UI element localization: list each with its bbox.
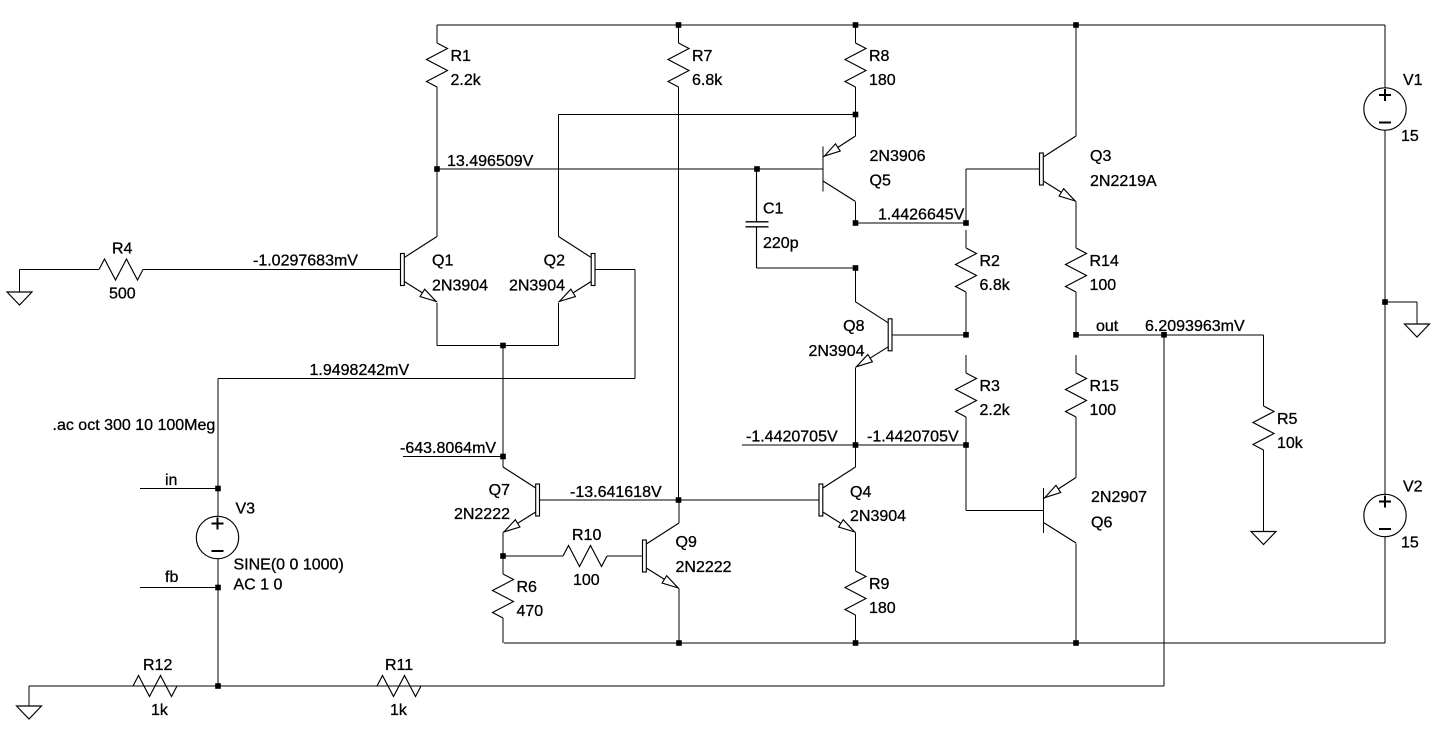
svg-text:180: 180: [869, 72, 896, 89]
transistor Q8 2N3904: [856, 302, 893, 368]
wire in stub: [140, 488, 218, 490]
svg-text:C1: C1: [763, 201, 784, 218]
svg-text:.ac oct 300 10 100Meg: .ac oct 300 10 100Meg: [53, 417, 216, 434]
svg-text:1.4426645V: 1.4426645V: [878, 207, 965, 224]
wire -1.442V link: [856, 444, 967, 446]
junction: [853, 22, 859, 28]
resistor R7: [668, 25, 723, 500]
resistor R14: [1066, 230, 1119, 335]
wire Q3 emitter: [1075, 202, 1077, 230]
wire Q5 collector: [855, 202, 857, 223]
wire Q8 emitter: [855, 368, 857, 445]
svg-text:R6: R6: [517, 579, 538, 596]
wire Q3 base horizontal: [966, 168, 1040, 170]
ground supply midpoint: [1405, 324, 1430, 337]
wire C1 bottom: [757, 267, 856, 269]
wire V2 bottom lead: [1384, 537, 1386, 644]
wire 1.44V net: [856, 222, 967, 224]
junction C1 tap: [754, 166, 760, 172]
wire Q9 collector: [678, 500, 680, 523]
wire Q2 emitter horizontal: [503, 345, 559, 347]
wire out feedback vertical: [1163, 335, 1165, 686]
svg-text:Q9: Q9: [676, 534, 697, 551]
junction Q9 emitter bottom: [676, 640, 682, 646]
svg-text:R1: R1: [451, 48, 472, 65]
junction 1.44V left: [853, 220, 859, 226]
junction R7 bottom: [676, 497, 682, 503]
junction R9 bottom: [853, 640, 859, 646]
wire tail down: [502, 346, 504, 468]
svg-text:R7: R7: [692, 48, 713, 65]
svg-text:470: 470: [517, 603, 544, 620]
wire ground lead bottom left: [28, 686, 30, 706]
svg-text:13.496509V: 13.496509V: [447, 153, 534, 170]
wire Q1 collector: [436, 169, 438, 237]
wire Q2 emitter vertical: [558, 303, 560, 346]
svg-text:V1: V1: [1403, 72, 1423, 89]
transistor Q4 2N3904: [819, 467, 856, 533]
svg-text:R5: R5: [1277, 411, 1298, 428]
transistor Q9 2N2222: [643, 523, 680, 589]
wire Q7 emitter: [502, 533, 504, 556]
resistor R2: [956, 230, 1011, 335]
svg-text:1.9498242mV: 1.9498242mV: [310, 362, 410, 379]
svg-text:Q1: Q1: [432, 253, 453, 270]
resistor R4: [81, 241, 161, 303]
svg-text:2.2k: 2.2k: [451, 72, 482, 89]
svg-text:10k: 10k: [1277, 435, 1304, 452]
junction fb: [215, 585, 221, 591]
wire V3 bottom: [217, 559, 219, 687]
svg-text:fb: fb: [165, 569, 178, 586]
junction R2-R3-Q8: [963, 332, 969, 338]
junction: [1073, 22, 1079, 28]
junction out feedback tap: [1161, 332, 1167, 338]
ground bottom left: [17, 706, 42, 719]
svg-text:Q3: Q3: [1090, 148, 1111, 165]
wire Q7-Q4 base net: [540, 499, 820, 501]
wire V1 top lead: [1384, 25, 1386, 88]
ground R5: [1251, 532, 1276, 545]
svg-text:in: in: [165, 472, 177, 489]
svg-text:100: 100: [573, 572, 600, 589]
svg-text:Q4: Q4: [850, 484, 871, 501]
svg-text:R2: R2: [980, 253, 1001, 270]
resistor R6: [493, 556, 544, 643]
wire V1 to ground node: [1384, 130, 1386, 302]
wire fb stub: [140, 587, 218, 589]
transistor Q6 2N2907: [1044, 478, 1077, 544]
junction C1-Q8 collector: [853, 265, 859, 271]
resistor R9: [845, 553, 896, 643]
transistor Q2 2N3904: [559, 237, 596, 303]
junction V1-V2 midpoint: [1382, 299, 1388, 305]
junction diff pair tail: [500, 343, 506, 349]
svg-text:-1.4420705V: -1.4420705V: [867, 429, 959, 446]
svg-text:2N2219A: 2N2219A: [1090, 173, 1157, 190]
svg-text:-1.0297683mV: -1.0297683mV: [253, 253, 358, 270]
wire Q1 emitter horizontal: [437, 345, 503, 347]
wire V2 top lead: [1384, 302, 1386, 495]
svg-text:V3: V3: [236, 501, 256, 518]
wire ground stub vertical: [1416, 302, 1418, 324]
svg-text:R15: R15: [1090, 378, 1119, 395]
svg-text:1k: 1k: [151, 702, 169, 719]
svg-text:1k: 1k: [390, 702, 408, 719]
junction -1.442V left: [853, 442, 859, 448]
wire VEE rail: [504, 642, 1385, 644]
ground input: [7, 292, 32, 305]
voltage source V1: [1364, 72, 1423, 145]
wire Q3 collector: [1075, 25, 1077, 136]
resistor R10: [545, 527, 643, 589]
wire Q4 emitter: [855, 533, 857, 553]
node 13.496509V junction: [434, 166, 440, 172]
svg-text:R3: R3: [980, 378, 1001, 395]
junction Q6 collector bottom: [1073, 640, 1079, 646]
svg-text:2N3904: 2N3904: [509, 278, 565, 295]
wire Q4 collector: [855, 445, 857, 467]
wire Q2 collector to R8 node: [559, 114, 856, 116]
wire feedback to base: [218, 378, 635, 380]
svg-text:R11: R11: [385, 657, 413, 674]
svg-text:Q5: Q5: [870, 173, 891, 190]
wire Q1 emitter vertical: [436, 303, 438, 346]
junction Q7 emitter: [500, 553, 506, 559]
transistor Q1 2N3904: [401, 237, 438, 303]
resistor R11: [359, 657, 440, 719]
svg-text:Q6: Q6: [1091, 515, 1112, 532]
svg-text:2N3904: 2N3904: [850, 508, 906, 525]
capacitor C1: [746, 169, 799, 268]
svg-text:-643.8064mV: -643.8064mV: [400, 440, 496, 457]
junction -643mV: [500, 454, 506, 460]
wire ground stub horizontal: [1385, 301, 1417, 303]
svg-text:R10: R10: [572, 527, 601, 544]
wire Q8 base: [892, 334, 966, 336]
wire R5 lead: [1263, 335, 1265, 388]
svg-text:2N2222: 2N2222: [454, 506, 510, 523]
svg-text:500: 500: [109, 286, 136, 303]
wire Q2 base stub: [595, 269, 635, 271]
wire V3 top: [217, 379, 219, 517]
svg-text:6.2093963mV: 6.2093963mV: [1145, 318, 1245, 335]
wire R4 ground lead: [19, 270, 21, 293]
svg-text:V2: V2: [1403, 479, 1423, 496]
svg-text:180: 180: [869, 600, 896, 617]
svg-text:2.2k: 2.2k: [980, 402, 1011, 419]
svg-text:Q8: Q8: [843, 318, 864, 335]
svg-text:R14: R14: [1090, 253, 1119, 270]
wire Q2 base vertical: [634, 270, 636, 379]
svg-text:100: 100: [1090, 277, 1117, 294]
svg-text:2N3906: 2N3906: [870, 148, 926, 165]
svg-text:R8: R8: [869, 48, 890, 65]
resistor R5: [1253, 388, 1304, 532]
resistor R12: [115, 657, 196, 719]
transistor Q3 2N2219A: [1040, 136, 1077, 202]
wire Q6 collector: [1075, 544, 1077, 644]
svg-text:-1.4420705V: -1.4420705V: [746, 429, 838, 446]
svg-text:6.8k: 6.8k: [980, 277, 1011, 294]
junction -1.442V right: [963, 442, 969, 448]
svg-text:-13.641618V: -13.641618V: [570, 484, 662, 501]
transistor Q5 2N3906: [823, 136, 856, 202]
svg-text:AC 1 0: AC 1 0: [234, 577, 283, 594]
svg-text:2N2907: 2N2907: [1091, 489, 1147, 506]
voltage source V2: [1364, 479, 1423, 552]
wire R6 bottom rail: [504, 642, 1385, 644]
svg-text:220p: 220p: [763, 235, 799, 252]
junction in: [215, 486, 221, 492]
wire Q2 collector vertical: [558, 115, 560, 237]
junction: [676, 22, 682, 28]
svg-text:R12: R12: [143, 657, 172, 674]
svg-text:2N3904: 2N3904: [808, 343, 864, 360]
resistor R8: [845, 25, 896, 115]
junction R8-Q5 emitter: [853, 112, 859, 118]
resistor R3: [956, 355, 1011, 445]
svg-text:2N3904: 2N3904: [432, 278, 488, 295]
wire -643mV stub: [403, 456, 503, 458]
svg-text:Q2: Q2: [544, 253, 565, 270]
wire R4 left: [20, 269, 82, 271]
wire Q6 base horizontal: [966, 510, 1044, 512]
svg-text:SINE(0 0 1000): SINE(0 0 1000): [234, 557, 344, 574]
wire Q5 base net: [437, 168, 823, 170]
wire R15 to Q6 emitter: [1075, 435, 1077, 478]
wire Q9 emitter: [678, 589, 680, 643]
wire R10 left: [503, 555, 545, 557]
resistor R15: [1066, 355, 1119, 435]
svg-text:2N2222: 2N2222: [676, 559, 732, 576]
wire -1.442V stub: [742, 444, 856, 446]
svg-text:15: 15: [1401, 535, 1419, 552]
voltage source V3: [196, 501, 343, 594]
svg-text:R4: R4: [112, 241, 133, 258]
svg-text:Q7: Q7: [489, 482, 510, 499]
wire Q6 base vertical: [965, 445, 967, 511]
wire Q8 collector: [855, 268, 857, 302]
svg-text:15: 15: [1401, 128, 1419, 145]
junction 1.44V right: [963, 220, 969, 226]
wire R4 to Q1 base: [161, 269, 401, 271]
svg-text:R9: R9: [869, 576, 890, 593]
wire VCC top rail: [437, 24, 1385, 26]
svg-text:6.8k: 6.8k: [692, 72, 723, 89]
wire Q3 base vertical: [965, 169, 967, 223]
wire Q5 emitter: [855, 115, 857, 137]
wire out net: [1076, 334, 1264, 336]
junction V3 bottom: [215, 683, 221, 689]
svg-text:out: out: [1096, 318, 1119, 335]
junction out node: [1073, 332, 1079, 338]
wire feedback bottom rail: [29, 685, 1164, 687]
svg-text:100: 100: [1090, 402, 1117, 419]
resistor R1: [427, 25, 482, 169]
transistor Q7 2N2222: [503, 467, 540, 533]
